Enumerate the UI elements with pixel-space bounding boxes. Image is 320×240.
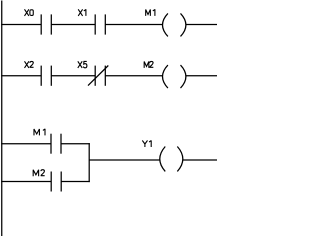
label X1 — [78, 9, 86, 16]
contact M1 (normally open) — [51, 134, 61, 154]
contact M2 (normally open) — [51, 172, 61, 192]
label M1 (coil) — [146, 9, 155, 16]
contact X0 (normally open) — [41, 14, 51, 34]
coil M1 — [163, 13, 186, 36]
wire rung2: coil M2 to right edge — [186, 75, 217, 77]
wire rung2: X2 to X5 — [51, 75, 95, 77]
coil Y1 — [160, 147, 183, 172]
wire rung3 bottom branch: M2 to junction — [61, 181, 90, 183]
wire rung3 top branch: rail to contact M1 — [1, 143, 51, 145]
contact X5 (normally closed) — [88, 66, 108, 86]
wire rung2: rail to contact X2 — [1, 75, 41, 77]
label M1 (contact) — [34, 129, 45, 136]
wire rung3 top branch: M1 to junction — [61, 143, 90, 145]
wire rung1: X0 to X1 — [51, 24, 95, 26]
label M2 (coil) — [144, 61, 153, 68]
label X0 — [25, 9, 34, 16]
label M2 (contact) — [33, 170, 44, 176]
wire rung1: rail to contact X0 — [1, 24, 41, 26]
coil M2 — [163, 65, 186, 88]
wire rung3 bottom branch: rail to contact M2 — [1, 181, 51, 183]
wire rung3: junction to coil Y1 — [89, 159, 160, 161]
wire rung2: X5 to coil M2 — [105, 75, 162, 77]
wire rung3: coil Y1 to right edge — [183, 159, 217, 161]
label X2 — [25, 61, 34, 68]
label Y1 — [142, 140, 151, 147]
wire rung1: X1 to coil M1 — [105, 24, 162, 26]
junction vertical wire (parallel branch join) — [88, 143, 90, 182]
wire rung1: coil M1 to right edge — [186, 24, 217, 26]
left power rail — [1, 1, 3, 237]
contact X2 (normally open) — [41, 66, 51, 86]
label X5 — [78, 61, 87, 68]
contact X1 (normally open) — [95, 14, 105, 34]
